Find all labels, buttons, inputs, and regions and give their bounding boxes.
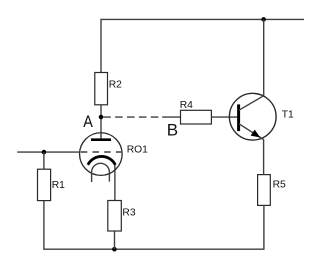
wire grid input stub xyxy=(17,151,79,153)
svg-text:R1: R1 xyxy=(52,180,65,191)
svg-text:R3: R3 xyxy=(122,208,135,219)
wire R4 to transistor base xyxy=(211,116,237,118)
resistor R1 xyxy=(38,169,66,200)
wire R1 top lead xyxy=(43,152,45,169)
resistor R4 xyxy=(180,100,212,124)
vacuum tube RO1 envelope xyxy=(80,133,123,176)
node A junction dot xyxy=(99,115,104,120)
svg-text:T1: T1 xyxy=(282,110,294,121)
vacuum tube RO1 anode plate xyxy=(91,138,111,141)
node junction top (collector tap) xyxy=(261,17,266,22)
resistor R2 xyxy=(95,73,122,105)
wire emitter to R5 xyxy=(263,139,265,174)
wire R3 bottom lead xyxy=(114,231,116,249)
wire R1 bottom to bottom rail xyxy=(43,201,45,250)
transistor T1 xyxy=(229,93,276,140)
svg-text:A: A xyxy=(83,112,93,131)
svg-text:R4: R4 xyxy=(180,100,193,111)
svg-text:R2: R2 xyxy=(109,79,122,90)
svg-text:RO1: RO1 xyxy=(127,145,148,156)
wire R5 down and bottom rail xyxy=(44,205,264,249)
vacuum tube RO1 heater xyxy=(92,163,110,182)
wire dashed link node A to node B / R4 xyxy=(103,116,180,118)
resistor R5 xyxy=(258,175,286,206)
wire collector riser xyxy=(263,19,265,95)
svg-text:B: B xyxy=(167,121,178,140)
node junction left (R1 tap) xyxy=(42,150,47,155)
wire top supply rail xyxy=(101,18,304,20)
transistor T1 label xyxy=(282,110,294,121)
node B label xyxy=(167,121,178,140)
vacuum tube RO1 label xyxy=(127,145,148,156)
wire R2 bottom to tube plate xyxy=(100,105,102,139)
svg-text:R5: R5 xyxy=(273,180,286,191)
node junction bottom (R3 tap) xyxy=(112,247,117,252)
node A label xyxy=(83,112,93,131)
vacuum tube RO1 cathode arc xyxy=(88,156,115,164)
resistor R3 xyxy=(108,201,136,232)
wire cathode lead to R3 xyxy=(114,164,116,200)
wire top-left drop to R2 xyxy=(100,19,102,73)
vacuum tube RO1 grid (dashed) xyxy=(81,151,122,153)
